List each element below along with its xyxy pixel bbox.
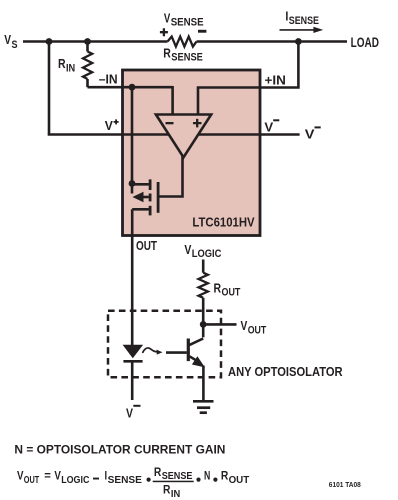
wire top rail left (23, 40, 168, 43)
wire V- rail (198, 133, 299, 136)
svg-text:IN: IN (66, 62, 75, 74)
wire V+ left drop (48, 42, 51, 135)
resistor RSENSE (168, 37, 197, 47)
svg-text:LOGIC: LOGIC (192, 248, 222, 260)
svg-text:R: R (221, 469, 229, 483)
svg-text:OUT: OUT (229, 475, 250, 486)
svg-text:IN: IN (171, 489, 180, 500)
svg-text:SENSE: SENSE (289, 15, 319, 27)
wire top rail right (197, 40, 348, 43)
wire OUT (131, 209, 134, 345)
IC U1 LTC6101HV body (123, 70, 261, 236)
junction dot MOSFET source (129, 180, 136, 187)
wire op-amp minus input (171, 86, 174, 115)
svg-text:R: R (154, 465, 162, 479)
svg-text:S: S (12, 39, 18, 51)
svg-text:V: V (241, 318, 248, 333)
svg-text:V: V (264, 121, 273, 135)
svg-text:V: V (54, 469, 61, 483)
svg-text:SENSE: SENSE (171, 17, 204, 29)
svg-text:OUT: OUT (136, 239, 157, 253)
transistor Q1 NPN (166, 339, 205, 401)
wire inner left vertical (131, 87, 134, 183)
wire VLOGIC drop (202, 260, 205, 273)
resistor RIN (86, 42, 89, 52)
junction dot RIN tap (84, 38, 91, 45)
wire V+ rail (48, 133, 169, 136)
svg-text:OUT: OUT (248, 324, 267, 336)
junction dot -IN node (129, 84, 136, 91)
label plus (160, 28, 168, 36)
svg-text:ANY OPTOISOLATOR: ANY OPTOISOLATOR (228, 364, 343, 379)
svg-text:SENSE: SENSE (171, 52, 203, 64)
op-amp A1 (156, 115, 211, 158)
svg-text:SENSE: SENSE (108, 475, 142, 486)
junction dot V+ drop (46, 38, 53, 45)
svg-text:N: N (204, 469, 210, 483)
wire LED cathode down (131, 361, 134, 400)
light arrow (143, 348, 158, 353)
LED D1 (123, 345, 144, 358)
wire VOUT (203, 323, 236, 326)
svg-text:R: R (163, 483, 171, 497)
svg-text:LOGIC: LOGIC (61, 475, 90, 486)
formula VOUT (17, 465, 250, 500)
junction dot VOUT (200, 321, 207, 328)
svg-text:R: R (163, 46, 171, 60)
svg-text:LTC6101HV: LTC6101HV (192, 214, 254, 229)
svg-text:V: V (17, 469, 24, 483)
svg-text:OUT: OUT (222, 287, 241, 299)
wire -IN (88, 86, 173, 89)
transistor M1 PMOS (132, 179, 158, 215)
label minus (198, 30, 206, 33)
wire +IN (198, 42, 298, 115)
svg-text:N = OPTOISOLATOR CURRENT GAIN: N = OPTOISOLATOR CURRENT GAIN (14, 442, 225, 456)
svg-text:OUT: OUT (24, 475, 40, 486)
svg-text:+IN: +IN (265, 73, 286, 87)
svg-text:V: V (105, 119, 114, 133)
arrow ISENSE (280, 29, 316, 31)
optoisolator dashed box (108, 311, 221, 378)
svg-text:6101 TA08: 6101 TA08 (329, 480, 361, 489)
svg-text:R: R (58, 57, 66, 71)
ground (193, 401, 214, 412)
resistor ROUT (199, 273, 208, 298)
svg-text:LOAD: LOAD (351, 35, 379, 50)
junction dot +IN tap (295, 38, 302, 45)
svg-text:=: = (44, 469, 51, 483)
svg-text:SENSE: SENSE (162, 471, 193, 482)
svg-text:V: V (126, 406, 133, 421)
wire ROUT to collector (202, 298, 205, 338)
svg-text:V: V (305, 128, 315, 142)
svg-text:–IN: –IN (99, 72, 118, 86)
svg-text:R: R (214, 281, 222, 295)
wire gate to op-amp output (158, 155, 182, 197)
